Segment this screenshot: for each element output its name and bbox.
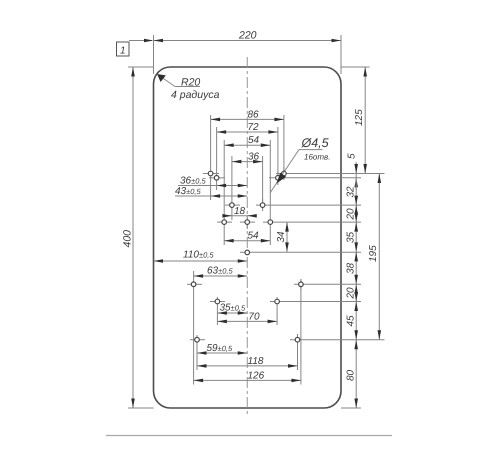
dimension 126 [194, 279, 301, 385]
dimension 195 [368, 174, 381, 340]
dimension chain 32 [346, 178, 359, 205]
bottom edge extension right [341, 407, 361, 409]
svg-text:195: 195 [368, 245, 379, 262]
row extension line right row7 [270, 301, 361, 303]
hole H2 [282, 171, 287, 176]
svg-text:18: 18 [234, 206, 246, 217]
centerline vertical [246, 57, 248, 417]
row extension line right row2 [269, 177, 361, 179]
hole H9 [268, 220, 273, 225]
svg-text:220: 220 [238, 30, 257, 42]
svg-text:110±0,5: 110±0,5 [183, 250, 214, 261]
row extension line right row1 [276, 173, 385, 175]
hole H7 [222, 220, 227, 225]
dimension 34 vertical [276, 222, 289, 252]
hole H3 [214, 176, 219, 181]
hole H1 [208, 171, 213, 176]
row extension line right row6 [294, 283, 361, 285]
svg-text:35±0,5: 35±0,5 [220, 303, 246, 314]
dimension 36 [232, 152, 263, 220]
svg-text:54: 54 [248, 135, 260, 146]
dimension 118 [197, 335, 298, 370]
dimension chain 80 [346, 340, 359, 408]
hole H15 [195, 337, 200, 342]
svg-text:126: 126 [248, 370, 265, 381]
hole H14 [275, 299, 280, 304]
dimension 43±0,5 [175, 186, 247, 198]
dimension 35±0,5 [217, 297, 247, 325]
svg-text:36: 36 [248, 152, 260, 163]
dimension 54 upper [224, 135, 270, 245]
dimension chain 20 upper [346, 205, 359, 222]
svg-text:54: 54 [248, 231, 260, 242]
dimension 86 [211, 109, 284, 200]
hole diameter callout O4,5 16 holes [284, 136, 330, 172]
svg-text:400: 400 [122, 230, 134, 248]
plate outline [154, 67, 342, 408]
dimension 18 [222, 206, 256, 218]
hole H6 [260, 203, 265, 208]
dimension 110±0,5 [154, 250, 248, 263]
hole H16 [295, 337, 300, 342]
radius callout R20 [157, 74, 220, 101]
dimension chain 35 [346, 222, 359, 252]
frame line bottom [106, 435, 392, 437]
svg-text:35: 35 [346, 231, 357, 243]
svg-text:32: 32 [346, 186, 357, 198]
row extension line right row5 [240, 251, 361, 253]
hole H13 [215, 299, 220, 304]
row extension line right row4 [263, 221, 361, 223]
hole centermarks [187, 167, 301, 346]
hole H10 [245, 250, 250, 255]
svg-text:80: 80 [346, 369, 357, 381]
dimension 220 top [154, 30, 342, 75]
dimension 5 [347, 153, 359, 190]
position callout box 1 [117, 39, 154, 57]
top edge extension right [341, 66, 370, 68]
dimension 125 [354, 67, 367, 174]
svg-text:43±0,5: 43±0,5 [175, 186, 201, 197]
svg-text:20: 20 [346, 208, 357, 221]
svg-text:86: 86 [248, 109, 260, 120]
dimension 63±0,5 [194, 266, 248, 293]
hole H4 [276, 176, 281, 181]
dimension chain 45 [346, 302, 359, 340]
svg-text:4 радиуса: 4 радиуса [171, 89, 220, 101]
svg-text:20: 20 [346, 287, 357, 300]
row extension line right row3 [256, 204, 361, 206]
svg-text:34: 34 [276, 231, 287, 243]
dimension chain 20 lower [346, 284, 359, 301]
leader arrow of diameter callout [270, 172, 286, 193]
dimension 36±0,5 [178, 176, 247, 188]
svg-text:125: 125 [354, 109, 365, 126]
svg-text:5: 5 [347, 153, 358, 159]
svg-text:16отв.: 16отв. [304, 153, 330, 162]
dimension 72 [217, 122, 278, 190]
svg-text:118: 118 [248, 356, 264, 367]
svg-text:R20: R20 [181, 77, 200, 89]
dimension 400 left [122, 67, 154, 408]
svg-text:1: 1 [120, 46, 126, 57]
svg-text:Ø4,5: Ø4,5 [301, 136, 329, 150]
svg-text:59±0,5: 59±0,5 [207, 343, 233, 354]
hole H8 [245, 220, 250, 225]
dimension chain 38 [346, 252, 359, 284]
svg-text:36±0,5: 36±0,5 [180, 176, 206, 187]
svg-text:45: 45 [346, 315, 357, 327]
dimension 59±0,5 [197, 335, 247, 370]
row extension line right row8 [290, 339, 385, 341]
dimension 54 lower [224, 231, 270, 243]
dimension 70 [217, 297, 277, 325]
hole H12 [299, 282, 304, 287]
hole H5 [230, 203, 235, 208]
svg-text:72: 72 [248, 122, 260, 133]
svg-text:63±0,5: 63±0,5 [207, 266, 233, 277]
svg-text:38: 38 [346, 262, 357, 274]
svg-text:70: 70 [248, 311, 260, 322]
hole H11 [191, 282, 196, 287]
